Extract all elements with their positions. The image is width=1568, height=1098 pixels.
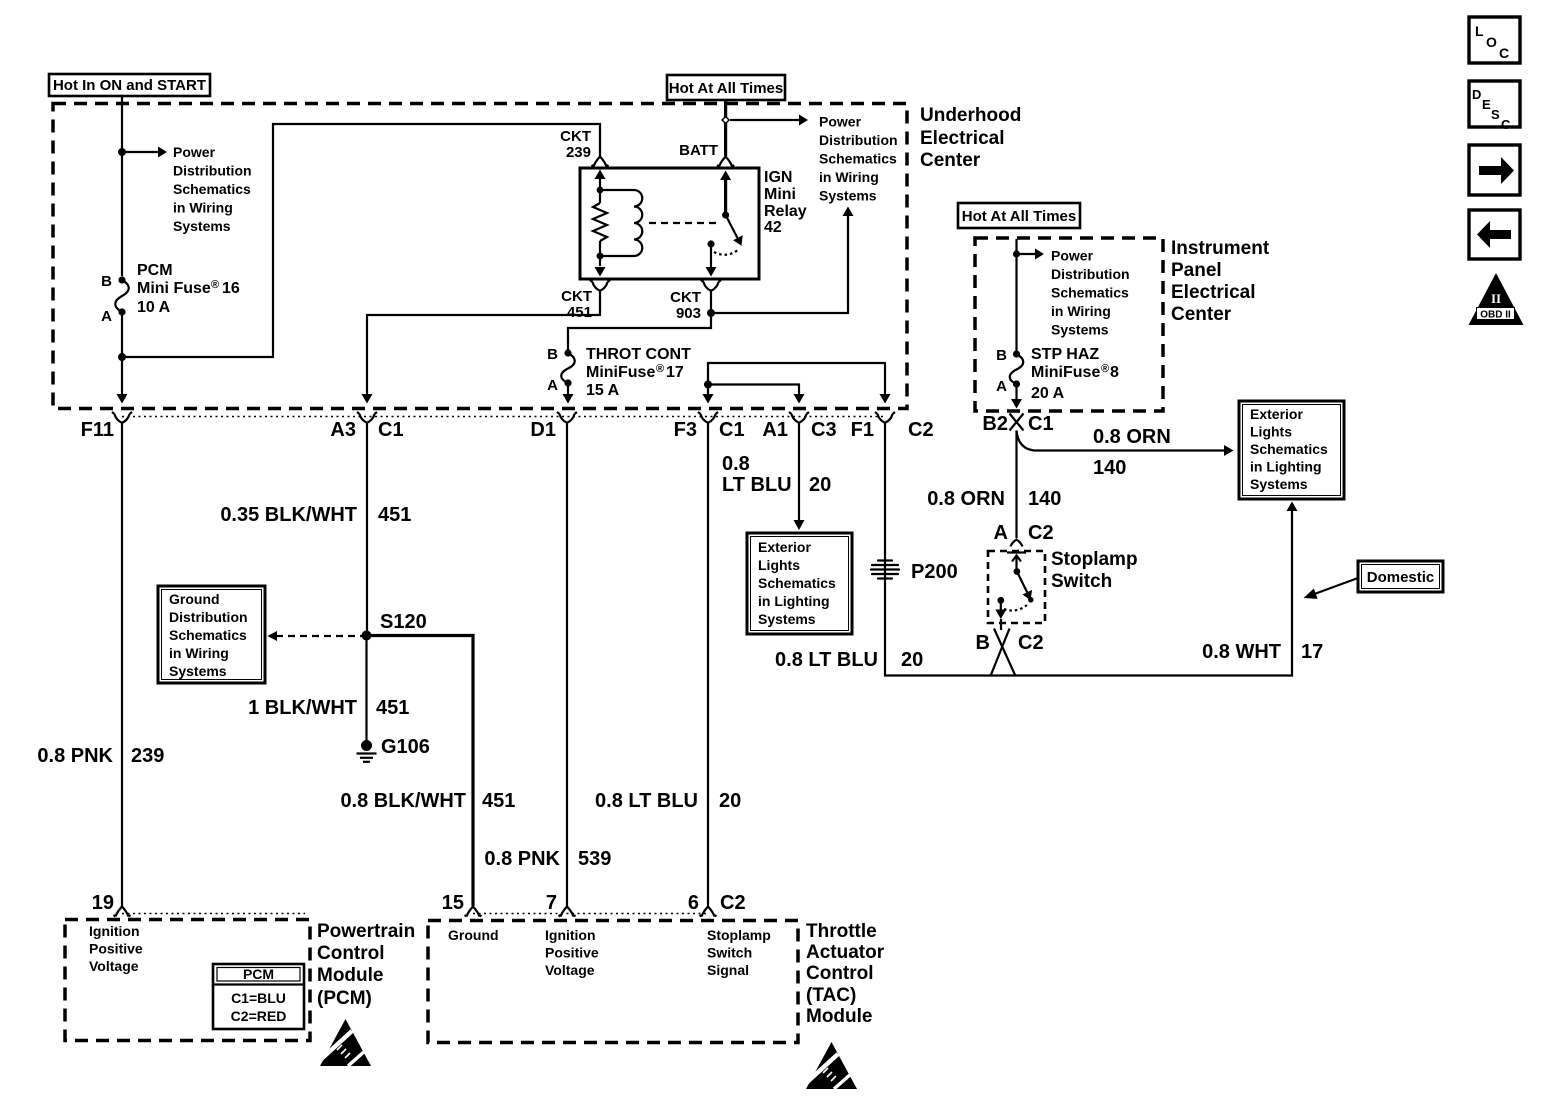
svg-text:1 BLK/WHT: 1 BLK/WHT: [248, 697, 357, 719]
svg-text:Underhood: Underhood: [920, 105, 1021, 126]
pin Y CKT451 below relay: [590, 280, 610, 296]
PCM pin function text: [89, 923, 143, 974]
svg-text:Ignition: Ignition: [89, 923, 140, 939]
svg-text:10 A: 10 A: [137, 299, 171, 316]
svg-text:S: S: [1491, 107, 1500, 122]
svg-text:MiniFuse: MiniFuse: [586, 364, 655, 381]
svg-text:II: II: [1491, 291, 1501, 306]
svg-text:Stoplamp: Stoplamp: [707, 927, 771, 943]
node junction with arrow to callout: [1013, 250, 1020, 257]
svg-text:Stoplamp: Stoplamp: [1051, 549, 1138, 570]
svg-text:Center: Center: [920, 150, 981, 171]
wire CKT903 to up-arrow at callout: [711, 216, 848, 313]
stoplamp feed network F3/A1/F1 inside box: [703, 363, 891, 404]
callout box Ground Distribution Schematics in Wiring Systems: [158, 586, 265, 683]
PCM connector legend box: [213, 964, 304, 1029]
svg-text:Ignition: Ignition: [545, 927, 596, 943]
svg-text:in Wiring: in Wiring: [1051, 303, 1111, 319]
svg-text:451: 451: [378, 504, 411, 526]
svg-text:539: 539: [578, 848, 611, 870]
svg-text:Ground: Ground: [169, 591, 220, 607]
svg-text:451: 451: [567, 304, 592, 321]
svg-text:Voltage: Voltage: [89, 958, 139, 974]
stoplamp switch internals: [995, 553, 1033, 620]
callout text Power Distribution Schematics in Wiring Systems (IP): [1051, 248, 1130, 338]
pin chevron CKT239 into relay: [592, 157, 609, 167]
svg-text:16: 16: [222, 280, 240, 297]
svg-text:F1: F1: [851, 419, 874, 441]
svg-text:C1: C1: [719, 419, 745, 441]
pin F1 / C2: [875, 412, 895, 428]
wire F11 ignition feed (vertical): [121, 97, 123, 399]
fuse PCM Mini Fuse 16 10A: [101, 262, 240, 325]
svg-text:A: A: [547, 377, 558, 394]
svg-text:MiniFuse: MiniFuse: [1031, 364, 1100, 381]
svg-text:Systems: Systems: [173, 218, 231, 234]
label Underhood Electrical Center: [920, 105, 1021, 171]
inline connector B / C2 below switch: [976, 619, 1044, 676]
splice S120: [362, 631, 372, 641]
callout text Power Distribution Schematics in Wiring Systems (right): [819, 114, 898, 204]
wire arrow to Power Distribution callout (right): [730, 119, 799, 121]
inline connector B2 / C1: [1010, 414, 1024, 431]
svg-text:Distribution: Distribution: [819, 132, 898, 148]
svg-text:B: B: [101, 273, 112, 290]
svg-text:Panel: Panel: [1171, 260, 1222, 281]
svg-text:Relay: Relay: [764, 203, 807, 220]
svg-text:BATT: BATT: [679, 142, 718, 159]
svg-text:A: A: [994, 522, 1008, 544]
svg-text:O: O: [1486, 34, 1497, 50]
svg-text:903: 903: [676, 305, 701, 322]
svg-text:Systems: Systems: [1051, 322, 1109, 338]
svg-text:Distribution: Distribution: [169, 609, 248, 625]
svg-text:in Lighting: in Lighting: [1250, 459, 1322, 475]
svg-text:20: 20: [719, 790, 741, 812]
TAC pin function text: [448, 927, 771, 978]
connector row fine dotted line (underhood C1/C2): [122, 416, 884, 418]
svg-text:PCM: PCM: [137, 262, 173, 279]
svg-text:8: 8: [1110, 364, 1119, 381]
wire BATT feed: [724, 100, 727, 156]
svg-text:Mini Fuse: Mini Fuse: [137, 280, 211, 297]
svg-text:140: 140: [1028, 488, 1061, 510]
relay box IGN Mini Relay 42: [580, 168, 759, 279]
svg-text:Lights: Lights: [758, 557, 800, 573]
svg-text:Domestic: Domestic: [1367, 569, 1435, 586]
svg-text:D1: D1: [530, 419, 556, 441]
PCM module dashed box: [65, 920, 310, 1041]
svg-text:Schematics: Schematics: [1250, 441, 1328, 457]
svg-text:P200: P200: [911, 561, 958, 583]
label Hot In ON and START: [49, 74, 210, 96]
connector fine dotted line TAC: [473, 913, 708, 915]
svg-text:Power: Power: [173, 144, 216, 160]
svg-text:20: 20: [809, 474, 831, 496]
svg-text:0.35 BLK/WHT: 0.35 BLK/WHT: [220, 504, 357, 526]
svg-text:0.8 ORN: 0.8 ORN: [927, 488, 1005, 510]
connector fine dotted line PCM: [122, 913, 305, 915]
svg-text:C2: C2: [1018, 632, 1044, 654]
svg-text:Voltage: Voltage: [545, 962, 595, 978]
svg-text:in Wiring: in Wiring: [819, 169, 879, 185]
wire F3 to TAC pin 6 (0.8 LT BLU 20): [707, 428, 709, 906]
wire A1/C3 to exterior lights callout (0.8 LT BLU 20): [798, 428, 800, 521]
dashed wire S120 to ground distribution callout: [276, 635, 362, 637]
svg-text:C1: C1: [378, 419, 404, 441]
svg-text:Module: Module: [317, 965, 384, 986]
TAC module dashed box: [428, 921, 798, 1043]
svg-text:Positive: Positive: [545, 945, 599, 961]
svg-text:Electrical: Electrical: [1171, 282, 1256, 303]
wire A3 to S120 (0.35 BLK/WHT 451): [366, 428, 368, 631]
svg-text:Mini: Mini: [764, 186, 796, 203]
svg-text:19: 19: [92, 892, 114, 914]
svg-text:0.8 WHT: 0.8 WHT: [1202, 641, 1281, 663]
svg-text:THROT CONT: THROT CONT: [586, 346, 691, 363]
svg-text:20: 20: [901, 649, 923, 671]
svg-text:C1=BLU: C1=BLU: [231, 990, 286, 1006]
pin chevron BATT into relay: [717, 157, 734, 167]
svg-text:Distribution: Distribution: [173, 163, 252, 179]
svg-text:Ground: Ground: [448, 927, 499, 943]
svg-text:0.8 PNK: 0.8 PNK: [484, 848, 560, 870]
wire STP HAZ feed (vertical): [1015, 239, 1017, 352]
wire CKT903 relay down: [710, 296, 712, 313]
svg-text:LT BLU: LT BLU: [722, 474, 792, 496]
svg-text:A3: A3: [330, 419, 356, 441]
svg-text:A: A: [996, 378, 1007, 395]
svg-text:Powertrain: Powertrain: [317, 921, 415, 942]
wire F11 arrow: [117, 394, 128, 404]
svg-text:42: 42: [764, 219, 782, 236]
svg-text:Power: Power: [819, 114, 862, 130]
label Throttle Actuator Control (TAC) Module: [806, 921, 885, 1027]
svg-text:®: ®: [656, 363, 664, 375]
svg-text:Positive: Positive: [89, 941, 143, 957]
wire A3 arrow: [362, 394, 373, 404]
svg-text:Systems: Systems: [169, 663, 227, 679]
svg-text:Control: Control: [806, 963, 874, 984]
svg-text:in Lighting: in Lighting: [758, 593, 830, 609]
svg-text:G106: G106: [381, 736, 430, 758]
stoplamp switch dashed box: [988, 551, 1045, 623]
svg-text:17: 17: [1301, 641, 1323, 663]
callout text Power Distribution Schematics in Wiring Systems (left): [173, 144, 252, 234]
wire fuse junction to CKT239 (L path): [122, 124, 600, 357]
svg-text:15: 15: [442, 892, 464, 914]
wire fuse A to B2: [1015, 384, 1017, 400]
svg-text:B2: B2: [982, 413, 1008, 435]
label Instrument Panel Electrical Center: [1171, 238, 1270, 325]
svg-text:in Wiring: in Wiring: [169, 645, 229, 661]
svg-text:(TAC): (TAC): [806, 985, 856, 1006]
svg-text:C3: C3: [811, 419, 837, 441]
svg-text:Hot At All Times: Hot At All Times: [669, 80, 783, 97]
wire B2 branch to exterior lights callout (0.8 ORN 140): [1017, 431, 1225, 451]
icon LOC box: [1469, 17, 1520, 63]
svg-text:Signal: Signal: [707, 962, 749, 978]
svg-text:0.8: 0.8: [722, 453, 750, 475]
svg-text:Exterior: Exterior: [1250, 406, 1303, 422]
svg-text:6: 6: [688, 892, 699, 914]
svg-text:Power: Power: [1051, 248, 1094, 264]
svg-text:Distribution: Distribution: [1051, 266, 1130, 282]
relay coil branch (resistor + arrows): [593, 170, 607, 277]
svg-text:Schematics: Schematics: [1051, 285, 1129, 301]
svg-text:E: E: [1482, 97, 1491, 112]
node fuse output junction: [118, 353, 126, 361]
callout box Exterior Lights Schematics in Lighting Systems (left): [747, 533, 852, 634]
label Domestic with arrow: [1304, 561, 1444, 599]
pin D1: [557, 412, 577, 428]
svg-text:17: 17: [666, 364, 684, 381]
svg-text:0.8 PNK: 0.8 PNK: [37, 745, 113, 767]
icon forward arrow box: [1469, 145, 1520, 195]
wire F11 to PCM pin 19 (0.8 PNK 239): [121, 428, 123, 906]
svg-text:F3: F3: [674, 419, 697, 441]
svg-text:239: 239: [566, 144, 591, 161]
wire F1/C2 down through P200: [885, 428, 1292, 676]
inline connector P200: [871, 561, 958, 584]
svg-text:in Wiring: in Wiring: [173, 200, 233, 216]
svg-text:Throttle: Throttle: [806, 921, 877, 942]
svg-text:C2: C2: [720, 892, 746, 914]
svg-text:(PCM): (PCM): [317, 988, 372, 1009]
wire fuse A to D1: [567, 383, 569, 398]
svg-text:C2=RED: C2=RED: [231, 1008, 287, 1024]
fuse STP HAZ MiniFuse 8 20A: [996, 346, 1119, 402]
relay actuator dashed link: [649, 222, 716, 224]
label Hot At All Times (instrument panel): [958, 203, 1080, 228]
svg-text:0.8 ORN: 0.8 ORN: [1093, 426, 1171, 448]
wire B2 to stoplamp switch A (0.8 ORN 140): [1015, 431, 1017, 539]
Instrument Panel Electrical Center dashed box: [975, 238, 1163, 411]
node BATT diamond junction: [722, 117, 729, 124]
svg-text:Switch: Switch: [707, 945, 752, 961]
svg-text:®: ®: [1101, 363, 1109, 375]
svg-text:7: 7: [546, 892, 557, 914]
svg-text:Schematics: Schematics: [819, 151, 897, 167]
fuse THROT CONT MiniFuse 17 15A: [547, 346, 691, 399]
svg-text:Schematics: Schematics: [758, 575, 836, 591]
svg-text:OBD II: OBD II: [1480, 310, 1511, 321]
svg-text:D: D: [1472, 87, 1481, 102]
callout box Exterior Lights Schematics in Lighting Systems (right): [1239, 401, 1344, 499]
relay coil winding: [600, 190, 642, 256]
svg-text:S120: S120: [380, 611, 427, 633]
icon back arrow box: [1469, 210, 1520, 259]
svg-text:0.8 BLK/WHT: 0.8 BLK/WHT: [340, 790, 466, 812]
svg-text:CKT: CKT: [561, 288, 592, 305]
wire D1 to TAC pin 7 (0.8 PNK 539): [566, 428, 568, 906]
pin F11: [112, 412, 132, 428]
svg-text:0.8 LT BLU: 0.8 LT BLU: [775, 649, 878, 671]
svg-text:CKT: CKT: [560, 128, 591, 145]
wire S120 to TAC pin 15 (0.8 BLK/WHT 451): [367, 636, 474, 907]
svg-text:451: 451: [482, 790, 515, 812]
svg-text:239: 239: [131, 745, 164, 767]
svg-text:CKT: CKT: [670, 289, 701, 306]
Underhood Electrical Center dashed box: [53, 104, 907, 409]
svg-text:Electrical: Electrical: [920, 128, 1005, 149]
svg-text:Systems: Systems: [758, 611, 816, 627]
svg-text:A: A: [101, 308, 112, 325]
wire CKT451 relay to A3: [367, 296, 600, 399]
wire S120 to G106 (1 BLK/WHT 451): [365, 640, 367, 741]
svg-text:Lights: Lights: [1250, 424, 1292, 440]
svg-text:Control: Control: [317, 943, 385, 964]
node CKT903 junction: [707, 309, 715, 317]
svg-text:Hot At All Times: Hot At All Times: [962, 208, 1076, 225]
svg-text:PCM: PCM: [243, 966, 274, 982]
svg-text:F11: F11: [81, 419, 114, 441]
label Powertrain Control Module (PCM): [317, 921, 415, 1009]
svg-text:Systems: Systems: [819, 188, 877, 204]
svg-text:B: B: [996, 347, 1007, 364]
svg-text:Module: Module: [806, 1006, 873, 1027]
ground G106: [357, 736, 430, 762]
svg-text:L: L: [1475, 23, 1484, 39]
icon DESC box: [1469, 81, 1520, 132]
svg-text:STP HAZ: STP HAZ: [1031, 346, 1099, 363]
svg-text:C: C: [1501, 117, 1511, 132]
svg-text:C1: C1: [1028, 413, 1054, 435]
svg-text:C: C: [1499, 45, 1509, 61]
svg-text:Exterior: Exterior: [758, 539, 811, 555]
svg-text:Actuator: Actuator: [806, 942, 885, 963]
pin Y CKT903 below relay: [701, 280, 721, 296]
svg-text:451: 451: [376, 697, 409, 719]
ESD symbol PCM: [318, 1019, 371, 1066]
svg-text:Systems: Systems: [1250, 476, 1308, 492]
svg-text:Switch: Switch: [1051, 571, 1112, 592]
pin F3 / C1: [698, 412, 718, 428]
svg-text:15 A: 15 A: [586, 382, 620, 399]
svg-text:Schematics: Schematics: [169, 627, 247, 643]
svg-text:20 A: 20 A: [1031, 385, 1065, 402]
svg-text:140: 140: [1093, 457, 1126, 479]
label Hot At All Times (underhood): [667, 75, 785, 100]
svg-text:Schematics: Schematics: [173, 181, 251, 197]
pin A1 / C3: [789, 412, 809, 428]
pin A3 / C1: [357, 412, 377, 428]
svg-text:C2: C2: [908, 419, 934, 441]
svg-text:Center: Center: [1171, 304, 1232, 325]
wire CKT903 to THROT CONT fuse: [568, 313, 711, 352]
svg-text:Instrument: Instrument: [1171, 238, 1270, 259]
node junction with arrow to Power Distribution callout: [118, 148, 126, 156]
svg-text:B: B: [976, 632, 990, 654]
relay switch (BATT pole, movable arm, output contact): [706, 171, 743, 277]
svg-text:B: B: [547, 346, 558, 363]
ESD symbol TAC: [804, 1042, 857, 1089]
svg-text:A1: A1: [762, 419, 788, 441]
icon CCD II triangle: [1469, 273, 1524, 325]
svg-text:Hot In ON and START: Hot In ON and START: [53, 77, 206, 94]
svg-text:0.8 LT BLU: 0.8 LT BLU: [595, 790, 698, 812]
svg-text:C2: C2: [1028, 522, 1054, 544]
svg-text:®: ®: [211, 279, 219, 291]
svg-text:IGN: IGN: [764, 169, 792, 186]
